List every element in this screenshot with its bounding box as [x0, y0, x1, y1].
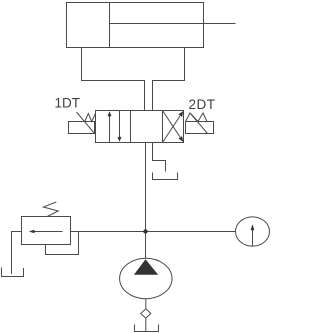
svg-text:2DT: 2DT — [189, 97, 216, 112]
svg-text:1DT: 1DT — [55, 96, 81, 111]
